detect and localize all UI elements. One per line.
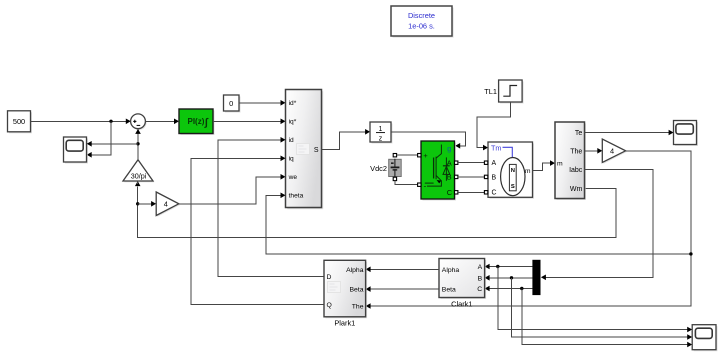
gain 4 (left) — [156, 192, 180, 217]
scope Scope1 (mirrored, inputs on right) — [64, 137, 89, 164]
demux (black bar) — [532, 260, 540, 295]
svg-text:A: A — [478, 264, 483, 271]
svg-text:Vdc2: Vdc2 — [370, 164, 387, 173]
step block TL1 — [499, 80, 524, 104]
port converter - — [418, 183, 421, 186]
wire demux out1 to Clark1 A — [485, 264, 533, 270]
svg-text:C: C — [477, 286, 482, 293]
svg-text:g: g — [447, 144, 452, 153]
wire Clark1 Beta to Plark1 Beta — [366, 286, 439, 292]
wire Wm feedback (bus Wm to 30/pi and gain4) — [135, 181, 616, 238]
node junction on 500 wire — [109, 120, 112, 123]
node junction on C wire — [520, 287, 523, 290]
wire converter C to machine C — [458, 191, 485, 193]
wire Vdc2 - to converter - — [395, 181, 418, 185]
node junction on A wire — [496, 265, 499, 268]
wire 30/pi output to sum bottom input — [135, 129, 141, 160]
wire A tap to scope3 input1 — [498, 267, 692, 333]
wire gain4b output down to The line and Plark1 The — [366, 151, 691, 309]
svg-text:-: - — [424, 180, 427, 190]
wire junction to gain4 input — [138, 201, 156, 207]
DC voltage source Vdc2 — [389, 159, 402, 178]
wire Vdc2 + to converter + — [397, 154, 418, 156]
wire Te to Scope2 — [585, 130, 674, 136]
svg-text:theta: theta — [289, 193, 304, 200]
wire converter B to machine B — [458, 176, 485, 178]
svg-text:The: The — [352, 304, 364, 311]
scope Scope3 (bottom right, 3 inputs) — [692, 325, 717, 352]
svg-text:Q: Q — [327, 302, 332, 309]
node junction on B wire — [510, 276, 513, 279]
IGBT converter block (green) — [421, 141, 456, 201]
FOC controller block — [286, 90, 324, 210]
wire machine m to bus selector m — [533, 160, 556, 170]
port converter C — [455, 191, 458, 194]
svg-text:1: 1 — [379, 126, 383, 133]
svg-text:D: D — [327, 274, 332, 281]
wire D feedback (Plark1 D to id input) — [218, 137, 324, 277]
wire B tap to scope3 input2 — [512, 278, 693, 340]
wire PI to iq* input — [213, 119, 286, 125]
node junction at gain4 branch — [136, 202, 139, 205]
gain 4 (right) — [602, 139, 627, 164]
svg-text:C: C — [447, 188, 453, 197]
wire 500 to sum — [31, 119, 131, 125]
svg-text:Tm: Tm — [491, 144, 501, 153]
wire C tap to scope3 input3 — [522, 289, 692, 348]
svg-text:iq: iq — [289, 156, 294, 163]
node junction on gain4b vertical (theta tap) — [689, 252, 692, 255]
port converter + — [418, 154, 421, 157]
svg-text:we: we — [288, 174, 298, 181]
svg-text:B: B — [492, 174, 497, 181]
port machine B — [484, 175, 487, 178]
port Vdc2 + (top) — [393, 154, 396, 157]
wire The to gain 4b — [585, 148, 603, 154]
svg-text:iq*: iq* — [289, 119, 297, 126]
svg-text:C: C — [492, 190, 497, 197]
port converter B — [455, 175, 458, 178]
wire demux out2 to Clark1 B — [485, 275, 533, 281]
Park transform block Plark1 — [324, 260, 367, 318]
svg-text:S: S — [314, 147, 319, 154]
svg-text:Plark1: Plark1 — [334, 318, 355, 327]
svg-text:Alpha: Alpha — [442, 267, 460, 274]
igbt drawing — [433, 158, 435, 179]
svg-text:id*: id* — [289, 100, 297, 107]
wire S output to unit delay — [322, 129, 371, 150]
svg-text:Discrete: Discrete — [408, 11, 435, 20]
svg-text:B: B — [478, 275, 483, 282]
wire junction to scope1 upper input — [87, 141, 138, 147]
node junction on feedback to scope1 — [136, 142, 139, 145]
svg-text:30/pi: 30/pi — [131, 172, 147, 181]
svg-text:N: N — [511, 168, 515, 174]
svg-text:+: + — [423, 151, 428, 160]
bus selector block (Te The Iabc Wm) — [555, 122, 586, 200]
sum block (+ -) — [131, 114, 147, 130]
constant block 0 — [224, 95, 241, 113]
svg-text:id: id — [289, 137, 294, 144]
wire Clark1 Alpha to Plark1 Alpha — [366, 267, 439, 273]
svg-text:Te: Te — [575, 130, 583, 137]
scope Scope2 (top right) — [674, 121, 699, 147]
wire unit delay to converter gate g — [391, 132, 465, 149]
svg-text:z: z — [379, 136, 383, 143]
svg-text:m: m — [525, 168, 531, 175]
wire gain4 to we input — [179, 174, 286, 204]
PI controller block PI(z) — [179, 109, 215, 135]
svg-text:Clark1: Clark1 — [451, 299, 472, 308]
svg-text:A: A — [492, 160, 497, 167]
svg-text:0: 0 — [229, 99, 233, 108]
wire Iabc to demux — [541, 170, 653, 281]
svg-text:1e-06 s.: 1e-06 s. — [408, 22, 435, 31]
wire converter A to machine A — [458, 162, 485, 164]
sample time info box "Discrete 1e-06 s." — [391, 6, 454, 38]
svg-text:Beta: Beta — [350, 287, 364, 294]
wire demux out3 to Clark1 C — [485, 286, 533, 292]
port converter A — [455, 161, 458, 164]
svg-text:4: 4 — [164, 200, 168, 209]
svg-text:TL1: TL1 — [484, 87, 497, 96]
wire Q feedback (Plark1 Q to iq input) — [191, 156, 324, 305]
gain 30/pi (pointing up) — [123, 160, 154, 182]
wire TL1 to machine Tm — [477, 102, 511, 150]
port machine A — [484, 161, 487, 164]
svg-text:Wm: Wm — [570, 186, 583, 193]
PMSM machine block — [488, 142, 534, 199]
svg-text:S: S — [511, 184, 515, 190]
svg-text:Iabc: Iabc — [569, 167, 583, 174]
svg-text:500: 500 — [13, 117, 25, 126]
constant block 500 — [8, 111, 33, 134]
port Vdc2 - (bottom) — [393, 177, 396, 180]
svg-text:PI(z): PI(z) — [188, 117, 205, 126]
wire 0 to id* input — [239, 100, 286, 106]
port machine C — [484, 191, 487, 194]
svg-text:Beta: Beta — [442, 287, 456, 294]
wire theta feedback (gain4b branch to theta input) — [266, 193, 691, 254]
svg-text:Alpha: Alpha — [346, 267, 364, 274]
wire sum to PI controller — [145, 119, 179, 125]
wire junction to scope1 lower input — [87, 121, 111, 157]
svg-text:4: 4 — [610, 147, 614, 156]
svg-text:The: The — [570, 149, 582, 156]
Clark transform block Clark1 — [439, 259, 486, 300]
unit delay block 1/z — [370, 122, 393, 144]
svg-text:m: m — [557, 161, 563, 168]
